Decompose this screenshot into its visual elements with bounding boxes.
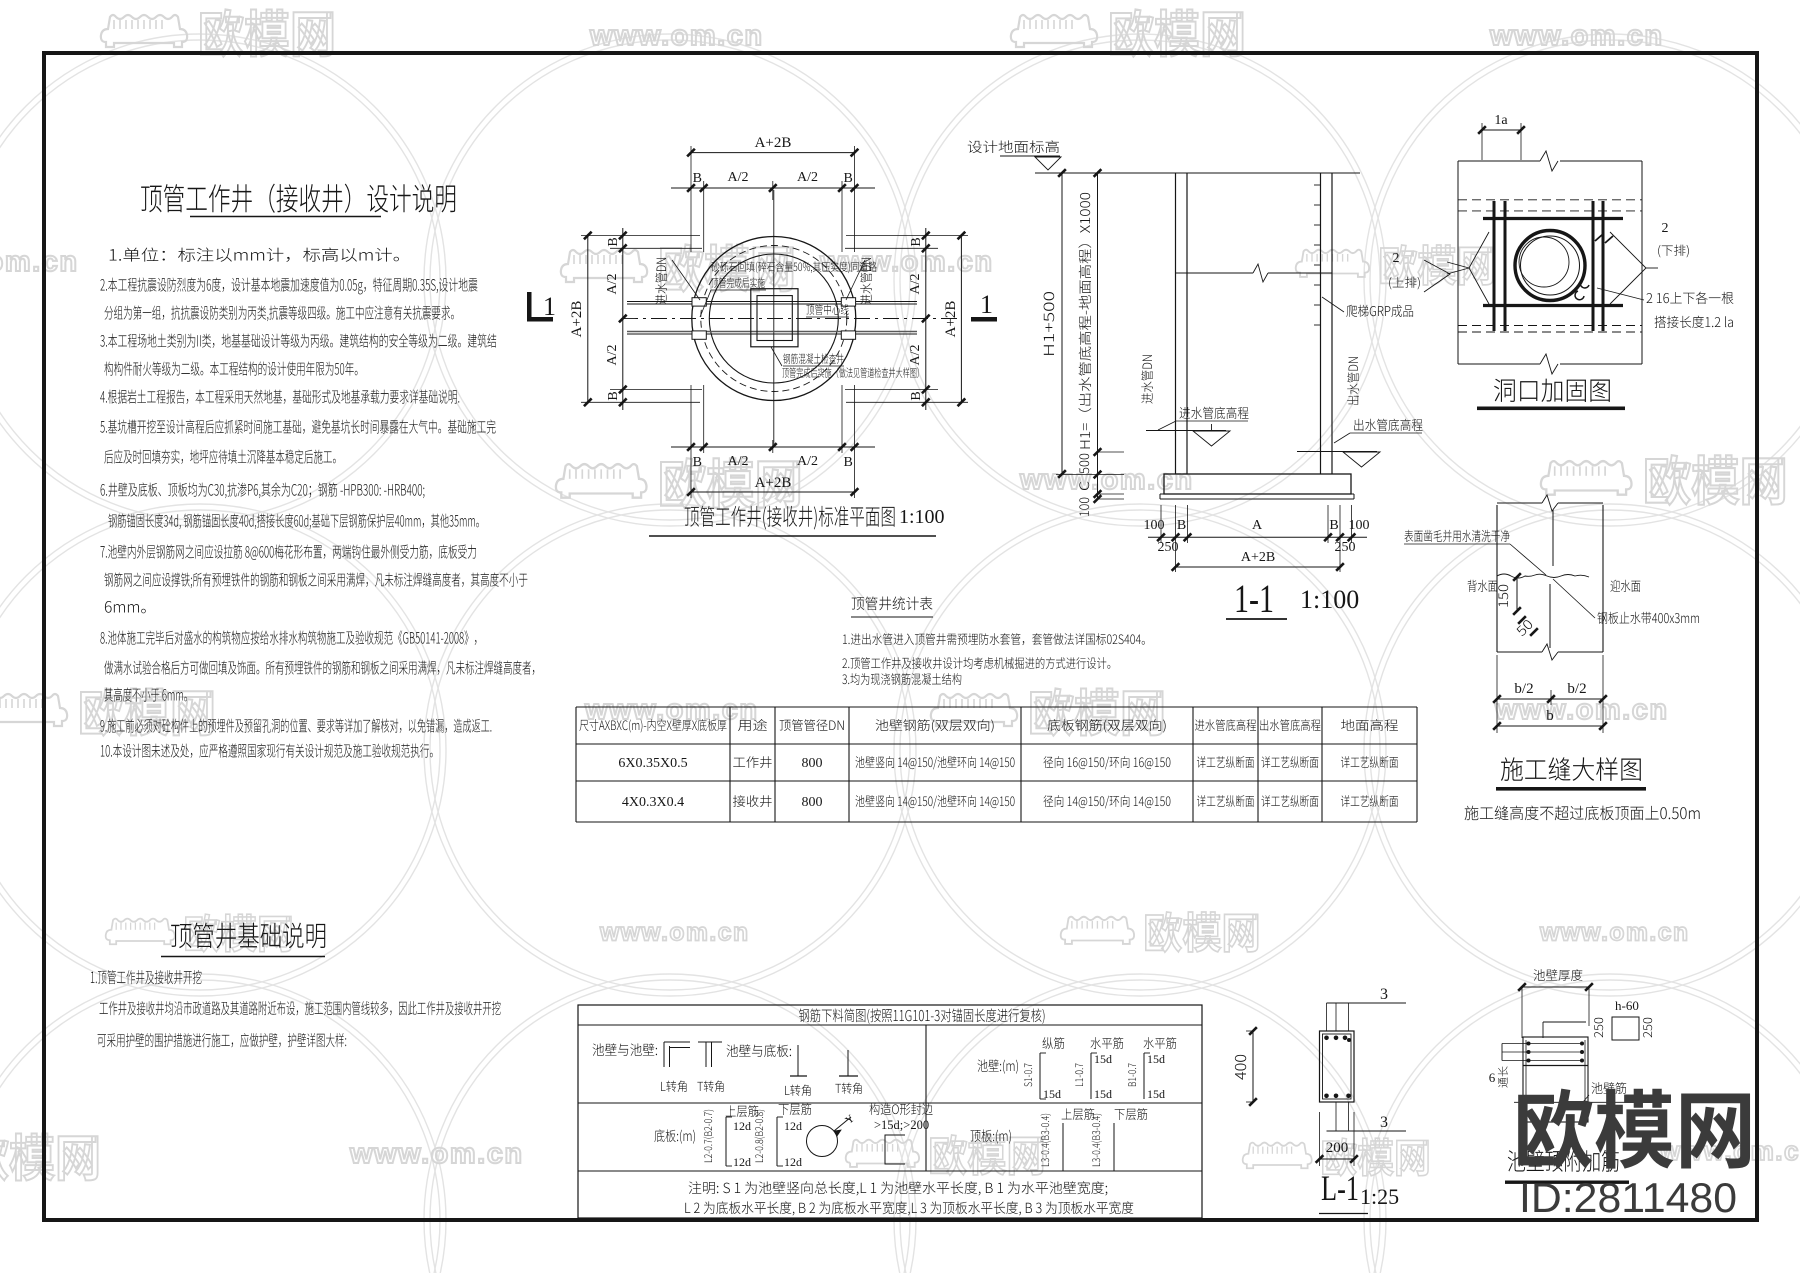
svg-text:A/2: A/2 [728, 170, 749, 185]
svg-text:200: 200 [1326, 1140, 1349, 1156]
plan view: well outer wall circle [692, 237, 856, 401]
plan bottom dimension B A/2 A/2 B [671, 446, 875, 448]
svg-text:3: 3 [1380, 1114, 1388, 1131]
svg-text:>15d;>200: >15d;>200 [874, 1118, 929, 1132]
svg-text:12d: 12d [784, 1155, 802, 1169]
svg-text:L-1: L-1 [1321, 1168, 1359, 1208]
wall-top detail: rebar dots [1527, 1042, 1531, 1046]
svg-text:A+2B: A+2B [569, 301, 585, 338]
plan view: pipe jacking lines [627, 301, 917, 303]
statistics table header row [579, 719, 726, 732]
section: right wall [1320, 173, 1322, 474]
joint detail: back water face label [1468, 580, 1498, 592]
opening detail: opening circle [1515, 231, 1585, 301]
svg-text:A/2: A/2 [908, 345, 923, 366]
svg-text:A+2B: A+2B [755, 135, 792, 151]
opening detail title [1494, 379, 1610, 402]
svg-text:12d: 12d [784, 1119, 802, 1133]
L-1 detail: top leader 3 [1326, 1003, 1328, 1031]
svg-text:15d: 15d [1147, 1052, 1165, 1066]
svg-text:A+2B: A+2B [943, 301, 959, 338]
svg-text:6: 6 [1489, 1070, 1496, 1085]
plan label: inlet pipe DN left [655, 258, 667, 304]
svg-text:B: B [693, 171, 702, 186]
rebar table title [799, 1008, 1045, 1023]
rebar table: top slab cell [971, 1129, 1011, 1143]
foundation notes title [171, 923, 325, 949]
section: base slab [1164, 474, 1351, 494]
svg-text:www.om.cn: www.om.cn [589, 20, 764, 52]
rebar table notes [689, 1181, 1108, 1195]
plan left dimension B A/2 A/2 B [622, 228, 624, 410]
rebar table: L corner symbol 2 [797, 1045, 799, 1076]
plan top extension lines [690, 146, 692, 252]
svg-text:b/2: b/2 [1567, 681, 1586, 697]
section: ground level label [968, 140, 1059, 153]
svg-text:www.om.cn: www.om.cn [1539, 920, 1690, 947]
design notes text block [110, 248, 399, 262]
svg-text:3: 3 [1380, 986, 1388, 1003]
L-1 detail: bottom leader 3 [1335, 1102, 1337, 1131]
foundation notes text [91, 970, 202, 984]
rebar table row lines [578, 1024, 1202, 1026]
dark site watermark logo [1518, 1089, 1750, 1170]
svg-text:B: B [844, 455, 853, 470]
section: ladder rungs [1314, 184, 1321, 186]
section: cushion layer [1160, 493, 1354, 495]
svg-text:b: b [1546, 708, 1554, 724]
svg-text:www.om.cn: www.om.cn [1019, 464, 1194, 496]
L-1 detail: rebar dots [1324, 1036, 1329, 1041]
plan view: pipe sleeve rects at wall crossings [692, 298, 706, 306]
wall-top detail: wall box [1523, 1037, 1588, 1122]
svg-text:1: 1 [980, 290, 993, 319]
svg-text:A: A [1252, 518, 1263, 533]
svg-text:A/2: A/2 [797, 170, 818, 185]
svg-text:B: B [1329, 518, 1338, 533]
svg-text:1:100: 1:100 [1300, 585, 1359, 614]
section left outer dim H1+500 [1061, 173, 1063, 474]
svg-text:www.om.cn: www.om.cn [599, 920, 750, 947]
svg-text:A/2: A/2 [728, 454, 749, 469]
svg-text:15d: 15d [1043, 1087, 1061, 1101]
svg-text:B: B [606, 237, 621, 246]
svg-text:2: 2 [1662, 221, 1669, 236]
L-1 detail: 400 dim [1252, 1031, 1254, 1102]
plan label: inspection chamber note [783, 353, 843, 364]
plan right extension lines [846, 235, 968, 237]
joint detail: steel waterstop label [1597, 612, 1699, 624]
section: left wall [1175, 173, 1177, 474]
rebar table outer border [578, 1005, 1202, 1218]
rebar table: wall-base label [727, 1044, 791, 1057]
svg-text:A+2B: A+2B [755, 475, 792, 491]
plan label: pipe center line [806, 304, 848, 315]
svg-text:1-1: 1-1 [1234, 576, 1274, 621]
svg-text:B: B [1177, 518, 1186, 533]
rebar table: T corner symbol 2 [847, 1050, 849, 1076]
joint detail note [1465, 806, 1700, 821]
plan view: wall centerline dashed circle [701, 246, 847, 392]
svg-text:12d: 12d [733, 1119, 751, 1133]
svg-text:12d: 12d [733, 1155, 751, 1169]
opening detail: dim 1a [1482, 129, 1521, 131]
plan left dimension A+2B [587, 236, 589, 403]
wall-top detail title [1508, 1150, 1619, 1172]
section left inner dim H1 formula [1097, 173, 1099, 499]
plan view: horizontal centerline dashed [622, 318, 958, 320]
rebar table: T corner symbol 1 [705, 1042, 707, 1067]
section bottom dim A+2B [1176, 566, 1341, 568]
wall-top detail: bottom line [1514, 1101, 1630, 1103]
section: ladder label [1346, 305, 1413, 317]
section: intermediate joint line with break [1176, 272, 1254, 274]
svg-text:1a: 1a [1494, 113, 1508, 128]
svg-text:6X0.35X0.5: 6X0.35X0.5 [618, 756, 687, 771]
opening detail: added vertical bars [1493, 201, 1496, 331]
rebar table: O-ring edge symbol [807, 1126, 838, 1157]
section: inlet pipe DN label rotated [1141, 355, 1153, 403]
section bottom extension lines [1160, 505, 1162, 543]
rebar table center divider [925, 1025, 927, 1171]
wall-top detail: step lines [1543, 1021, 1586, 1023]
svg-text:A/2: A/2 [605, 345, 620, 366]
section cut marker 1 right [971, 317, 997, 322]
plan view: well inner wall circle [709, 254, 838, 383]
section: inlet pipe invert line [1146, 430, 1226, 432]
wall-top detail: thickness dim [1522, 986, 1589, 988]
opening detail: left pointer arrow [1469, 232, 1489, 304]
rebar table: L corner symbol 1 [663, 1042, 665, 1067]
svg-text:www.om.cn: www.om.cn [819, 246, 994, 278]
section cut marker 1 left [527, 292, 532, 321]
svg-text:b/2: b/2 [1514, 681, 1533, 697]
plan top dimension A+2B [691, 152, 855, 154]
statistics table grid [576, 706, 1417, 708]
opening detail: right pointer arrow [1610, 232, 1646, 304]
svg-text:ID:2811480: ID:2811480 [1519, 1174, 1737, 1221]
section bottom dims 100 B A B 100 [1148, 536, 1367, 538]
section: inlet invert label [1180, 407, 1249, 419]
svg-text:1:100: 1:100 [899, 506, 945, 528]
plan title [685, 506, 895, 530]
plan bottom dimension A+2B [691, 491, 855, 493]
plan right dimension B A/2 A/2 B [925, 228, 927, 410]
svg-text:250: 250 [1335, 540, 1356, 555]
svg-text:800: 800 [802, 795, 823, 810]
svg-text:2: 2 [1393, 251, 1400, 266]
plan bottom extension lines [690, 385, 692, 498]
wall-top detail: wall rebar label [1592, 1082, 1627, 1094]
svg-text:15d: 15d [1094, 1052, 1112, 1066]
opening detail: added horizontal bars [1483, 217, 1623, 220]
svg-text:www.om.cn: www.om.cn [1489, 20, 1664, 52]
section: outlet pipe invert line [1297, 451, 1377, 453]
L-1 detail: 200 dim [1319, 1112, 1321, 1166]
svg-text:B: B [844, 171, 853, 186]
svg-text:www.om.cn: www.om.cn [0, 246, 79, 278]
svg-text:1: 1 [543, 292, 556, 321]
opening detail: wall slab edges [1458, 160, 1540, 162]
joint detail title [1501, 757, 1641, 781]
section: outlet invert label [1354, 419, 1422, 431]
svg-text:B: B [909, 237, 924, 246]
svg-text:A/2: A/2 [908, 274, 923, 295]
svg-text:800: 800 [802, 756, 823, 771]
svg-text:A+2B: A+2B [1241, 550, 1275, 565]
statistics table title [852, 596, 933, 610]
rebar table: wall cell [978, 1059, 1018, 1073]
svg-text:1:25: 1:25 [1360, 1184, 1399, 1209]
main title [141, 184, 455, 213]
statistics table notes [843, 633, 1145, 645]
svg-text:15d: 15d [1147, 1087, 1165, 1101]
plan right dimension A+2B [960, 236, 962, 403]
svg-text:B: B [909, 391, 924, 400]
rebar table: wall-wall label [593, 1043, 657, 1056]
section: outlet pipe DN label rotated [1347, 357, 1359, 404]
joint detail: b dim [1497, 725, 1603, 727]
svg-text:A/2: A/2 [797, 454, 818, 469]
plan left extension lines [581, 235, 700, 237]
svg-text:h-60: h-60 [1615, 998, 1639, 1013]
svg-text:A/2: A/2 [605, 274, 620, 295]
joint detail: 50 dim [1518, 616, 1526, 624]
svg-text:4X0.3X0.4: 4X0.3X0.4 [622, 795, 684, 810]
wall-top detail: left bracket [1501, 1044, 1503, 1061]
svg-text:15d: 15d [1094, 1087, 1112, 1101]
main title underline [190, 216, 381, 218]
joint detail: surface treatment label [1404, 530, 1509, 542]
opening detail: hook symbols [1580, 279, 1589, 288]
plan label: gravel backfill note [711, 261, 876, 273]
svg-text:www.om.cn: www.om.cn [349, 1138, 524, 1170]
rebar table: base slab cell [654, 1129, 695, 1143]
opening detail: rebar layer dashed lines [1458, 199, 1642, 201]
svg-text:B: B [693, 455, 702, 470]
joint detail: top/bottom breaks [1497, 502, 1542, 504]
joint detail: roughened joint wavy line [1497, 574, 1589, 578]
opening detail: label 2d16 bars [1647, 292, 1734, 304]
watermark tiles [101, 15, 187, 47]
plan view: vertical centerline [773, 190, 775, 447]
wall-top detail: thickness label [1534, 969, 1583, 981]
svg-text:B: B [606, 391, 621, 400]
joint detail: b/2 dims [1496, 655, 1498, 733]
plan view: central inspection chamber square [751, 289, 798, 347]
joint detail: facing water face label [1610, 580, 1640, 592]
L-1 detail: column section rect [1320, 1031, 1355, 1102]
plan top dimension B A/2 A/2 B [671, 187, 875, 189]
joint detail: wall edge lines [1496, 505, 1498, 652]
joint detail: 150 dim [1516, 577, 1518, 611]
section: ground level line [1035, 172, 1360, 174]
joint detail: center waterstop line [1552, 510, 1554, 566]
plan label: inlet pipe DN right [860, 258, 872, 304]
section left dim extension lines [1098, 451, 1124, 453]
